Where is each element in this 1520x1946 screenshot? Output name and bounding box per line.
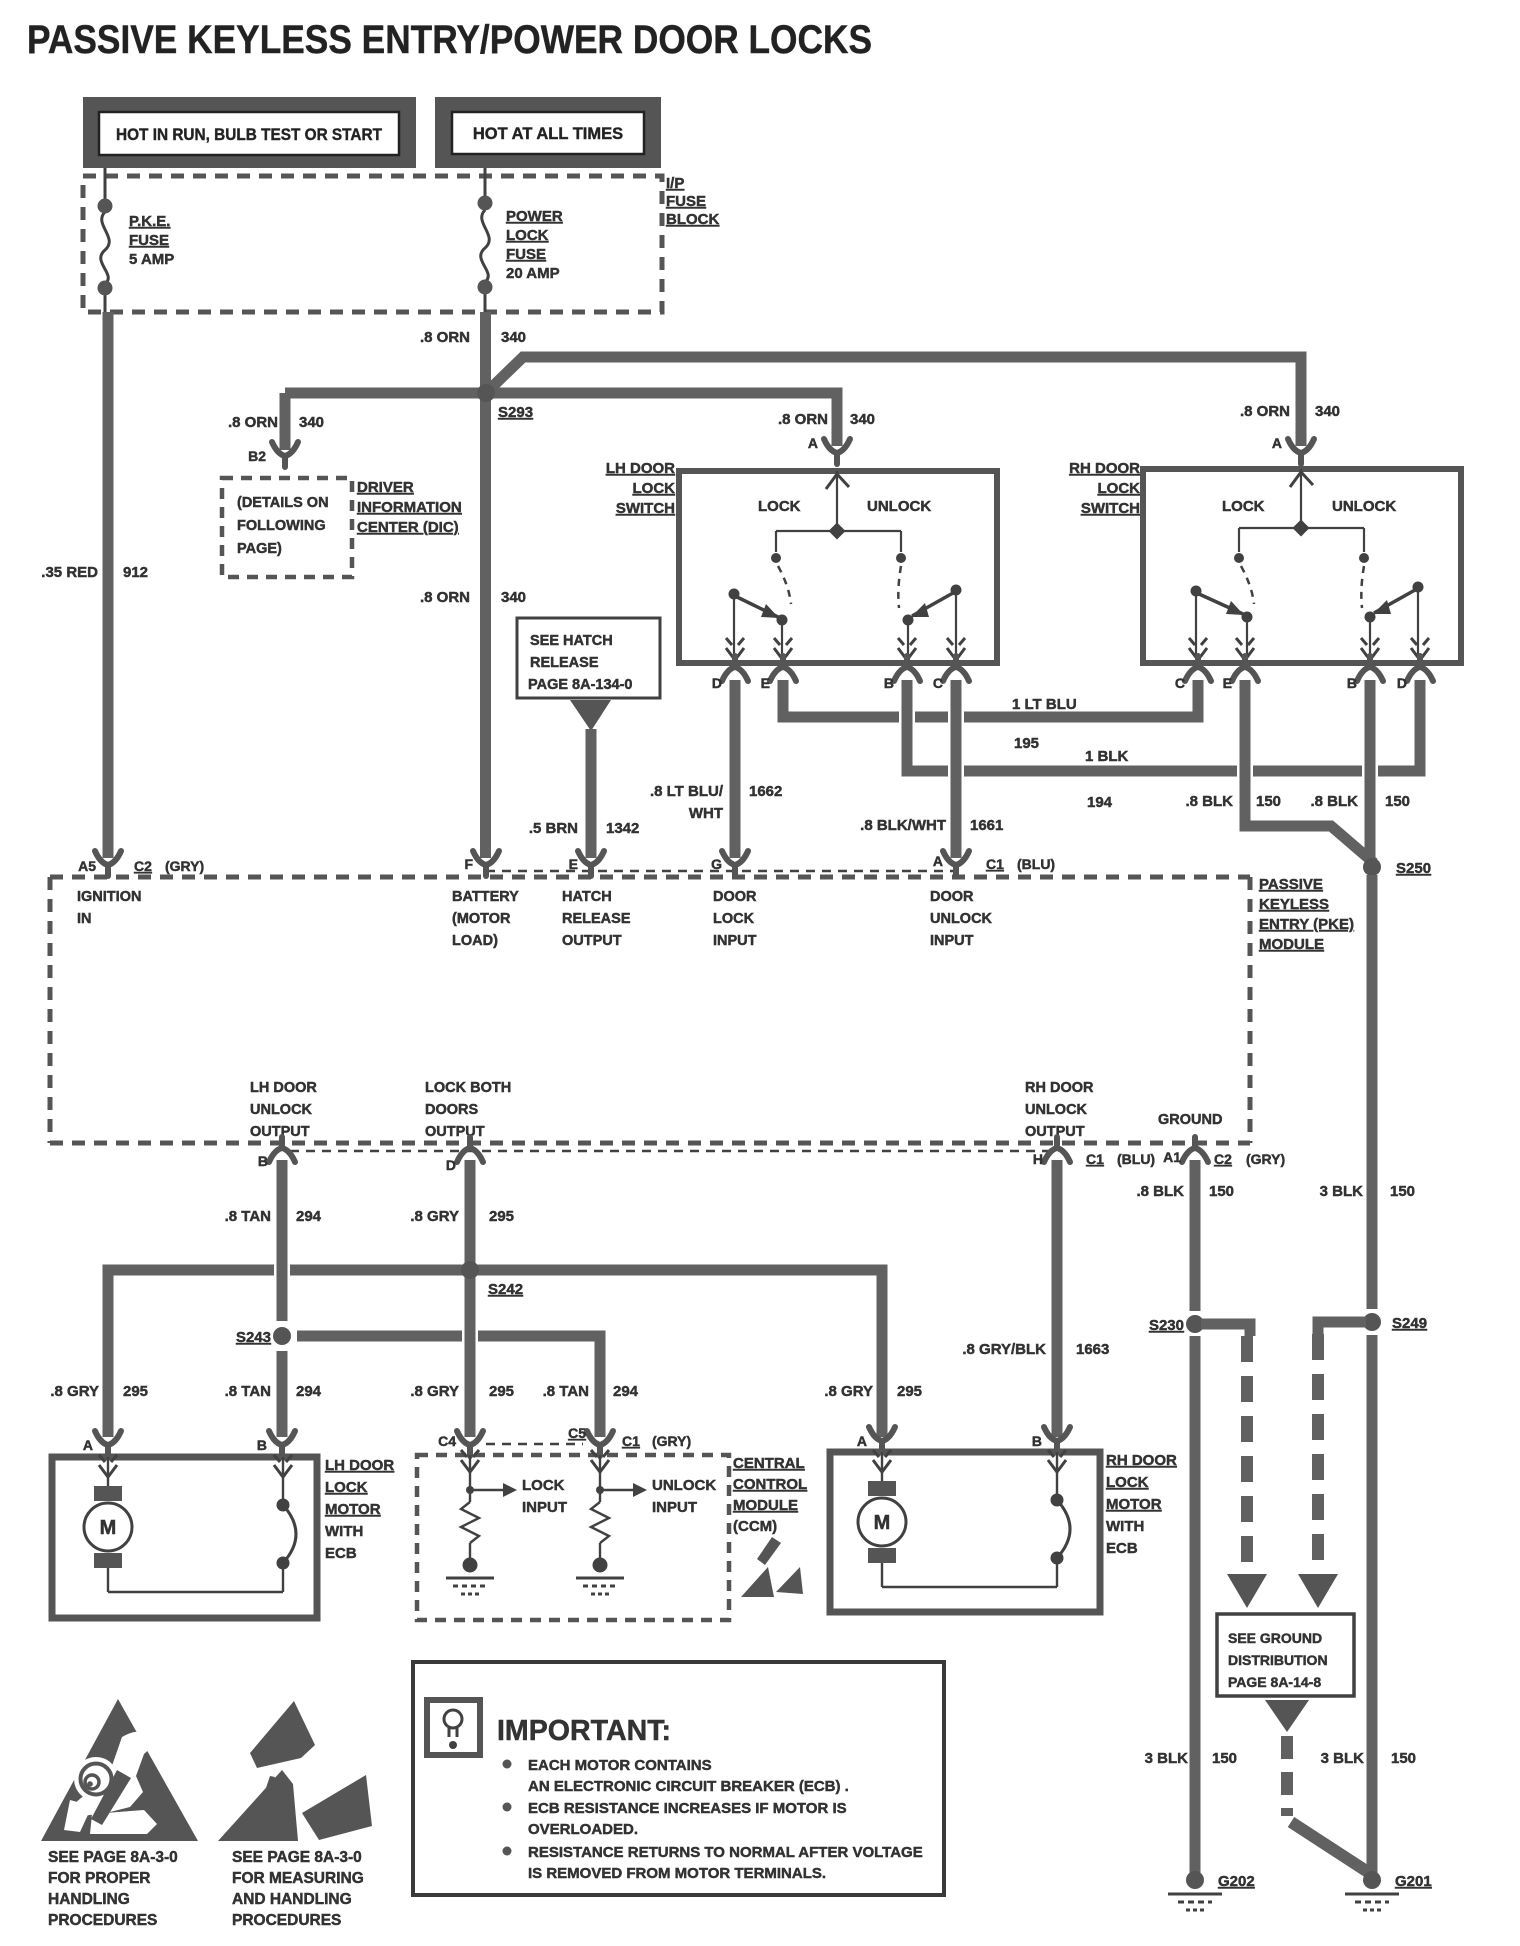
- pin C connector LH switch: [943, 656, 969, 681]
- svg-text:1342: 1342: [606, 820, 639, 837]
- label RH DOOR LOCK MOTOR WITH ECB: [1106, 1452, 1177, 1557]
- note EACH MOTOR CONTAINS ECB: [528, 1757, 849, 1795]
- RH switch unlock pole blade: [1365, 582, 1424, 657]
- svg-text:UNLOCK: UNLOCK: [652, 1477, 716, 1494]
- pin B connector LH motor: [269, 1431, 295, 1456]
- svg-text:1662: 1662: [749, 783, 782, 800]
- svg-text:.8 GRY/BLK: .8 GRY/BLK: [962, 1341, 1046, 1358]
- svg-text:SEE PAGE 8A-3-0: SEE PAGE 8A-3-0: [48, 1849, 178, 1866]
- callout SEE GROUND DISTRIBUTION PAGE 8A-14-8: [1217, 1614, 1354, 1696]
- svg-text:C2: C2: [1214, 1151, 1232, 1167]
- label H / C1 (BLU) PKE bottom: [1033, 1151, 1155, 1167]
- svg-text:(GRY): (GRY): [1246, 1151, 1285, 1167]
- label .8 GRY/BLK 1663: [962, 1341, 1109, 1358]
- svg-text:CENTRAL: CENTRAL: [733, 1455, 805, 1472]
- PKE module dashed box: [50, 877, 1250, 1143]
- svg-text:195: 195: [1014, 735, 1039, 752]
- RH switch lock pole pin arrows: [1189, 638, 1207, 660]
- svg-text:C5: C5: [568, 1425, 586, 1441]
- svg-text:LOCK: LOCK: [506, 227, 549, 244]
- svg-text:IS REMOVED FROM MOTOR TERMINAL: IS REMOVED FROM MOTOR TERMINALS.: [528, 1865, 826, 1882]
- svg-text:MODULE: MODULE: [1259, 936, 1324, 953]
- svg-text:.8 ORN: .8 ORN: [420, 589, 470, 606]
- svg-text:A: A: [933, 853, 943, 869]
- label LH DOOR LOCK MOTOR WITH ECB: [325, 1457, 394, 1562]
- wire S249 branch to ground distribution: [1318, 1322, 1366, 1334]
- junction S293: [477, 384, 495, 402]
- svg-text:LH DOOR: LH DOOR: [325, 1457, 394, 1474]
- svg-text:S243: S243: [236, 1329, 271, 1346]
- pin G connector PKE: [722, 851, 748, 876]
- svg-text:.8 TAN: .8 TAN: [543, 1383, 589, 1400]
- svg-text:.8 GRY: .8 GRY: [50, 1383, 99, 1400]
- svg-text:M: M: [100, 1517, 117, 1539]
- bullet 3: [503, 1847, 512, 1856]
- svg-text:295: 295: [123, 1383, 148, 1400]
- svg-text:DOOR: DOOR: [713, 889, 757, 905]
- svg-text:LOAD): LOAD): [452, 933, 498, 949]
- svg-text:C2: C2: [134, 858, 152, 874]
- IMPORTANT note box: [413, 1662, 944, 1895]
- RH switch lock-side fixed contact: [1234, 553, 1244, 563]
- RH switch common feed line: [1239, 469, 1364, 552]
- pin A connector LH switch: [824, 439, 850, 464]
- LH switch unlock-side fixed contact: [896, 553, 906, 563]
- svg-text:(DETAILS ON: (DETAILS ON: [237, 495, 329, 511]
- svg-text:ECB: ECB: [325, 1545, 357, 1562]
- svg-text:PASSIVE: PASSIVE: [1259, 876, 1323, 893]
- LH switch lock-side dashed travel: [778, 566, 791, 604]
- svg-text:POWER: POWER: [506, 208, 563, 225]
- pin A1 connector PKE bottom: [1182, 1137, 1208, 1162]
- svg-text:340: 340: [850, 411, 875, 428]
- svg-text:.8 BLK/WHT: .8 BLK/WHT: [860, 817, 946, 834]
- svg-text:S250: S250: [1396, 860, 1431, 877]
- wire .5 BRN 1342 hatch release: [586, 729, 597, 858]
- RH switch unlock-side dashed travel: [1361, 566, 1364, 608]
- svg-text:340: 340: [501, 589, 526, 606]
- svg-text:EACH MOTOR CONTAINS: EACH MOTOR CONTAINS: [528, 1757, 712, 1774]
- svg-text:LOCK: LOCK: [758, 498, 801, 515]
- LH door lock switch box: [679, 471, 997, 663]
- svg-text:DRIVER: DRIVER: [357, 479, 414, 496]
- svg-text:.5 BRN: .5 BRN: [529, 820, 578, 837]
- svg-text:B2: B2: [248, 448, 266, 464]
- fuse F2 POWER LOCK FUSE 20 AMP: [481, 176, 490, 312]
- svg-text:.8 GRY: .8 GRY: [824, 1383, 873, 1400]
- svg-text:.8 ORN: .8 ORN: [1240, 403, 1290, 420]
- svg-text:IMPORTANT:: IMPORTANT:: [497, 1715, 671, 1747]
- svg-text:.8 LT BLU/: .8 LT BLU/: [650, 783, 724, 800]
- ESD handling warning triangle 2: [218, 1701, 372, 1841]
- label POWER LOCK FUSE 20 AMP: [506, 208, 563, 282]
- svg-text:HOT AT ALL TIMES: HOT AT ALL TIMES: [473, 125, 623, 143]
- svg-text:LOCK BOTH: LOCK BOTH: [425, 1080, 511, 1096]
- svg-text:.8 TAN: .8 TAN: [225, 1208, 271, 1225]
- pin B connector LH switch: [894, 656, 920, 681]
- label SEE PAGE 8A-3-0 FOR PROPER HANDLING PROCEDURES: [48, 1849, 178, 1929]
- wire .8 BLK 150 RH pin B to S250: [1365, 680, 1376, 860]
- label A1 / C2 (GRY) PKE bottom: [1163, 1149, 1285, 1167]
- svg-text:340: 340: [501, 329, 526, 346]
- svg-text:294: 294: [296, 1383, 322, 1400]
- junction S249: [1363, 1313, 1381, 1331]
- svg-text:PASSIVE KEYLESS ENTRY/POWER DO: PASSIVE KEYLESS ENTRY/POWER DOOR LOCKS: [27, 18, 872, 62]
- wire 3 BLK 150 S249 to G201: [1367, 1335, 1378, 1880]
- bullet 1: [503, 1760, 512, 1769]
- label 1 LT BLU 195: [1012, 696, 1077, 752]
- note RESISTANCE RETURNS TO NORMAL: [528, 1844, 923, 1882]
- junction S243: [273, 1327, 291, 1345]
- ground G201: [1345, 1871, 1399, 1910]
- dashed wire ground distribution to G201: [1287, 1736, 1374, 1876]
- pin B connector PKE bottom: [269, 1137, 295, 1162]
- bullet 2: [503, 1803, 512, 1812]
- svg-text:C1: C1: [1086, 1151, 1104, 1167]
- wire .8 ORN 340 to DIC pin B2: [280, 393, 291, 450]
- svg-text:SEE GROUND: SEE GROUND: [1228, 1630, 1322, 1646]
- wire .8 BLK 150 RH pin E to S250: [1245, 680, 1374, 863]
- svg-text:HANDLING: HANDLING: [48, 1891, 130, 1908]
- svg-text:(GRY): (GRY): [165, 858, 204, 874]
- label CENTRAL CONTROL MODULE (CCM): [733, 1455, 807, 1535]
- svg-text:H: H: [1033, 1151, 1043, 1167]
- label I/P FUSE BLOCK: [666, 175, 719, 228]
- ESD handling warning triangle 1: [41, 1699, 198, 1841]
- svg-text:RH DOOR: RH DOOR: [1025, 1080, 1094, 1096]
- svg-text:(CCM): (CCM): [733, 1518, 777, 1535]
- label LH DOOR UNLOCK OUTPUT: [250, 1080, 317, 1140]
- label .35 RED 912: [41, 564, 148, 581]
- wire S230 branch to ground distribution: [1201, 1324, 1250, 1336]
- svg-text:150: 150: [1385, 793, 1410, 810]
- svg-text:G201: G201: [1395, 1873, 1432, 1890]
- svg-text:1 BLK: 1 BLK: [1085, 748, 1129, 765]
- label 3 BLK 150 G202: [1145, 1750, 1237, 1767]
- off-page arrow S249 branch: [1298, 1574, 1338, 1608]
- svg-text:INPUT: INPUT: [930, 933, 974, 949]
- svg-text:FOR PROPER: FOR PROPER: [48, 1870, 150, 1887]
- svg-text:.8 GRY: .8 GRY: [410, 1383, 459, 1400]
- svg-text:.8 ORN: .8 ORN: [420, 329, 470, 346]
- svg-text:INPUT: INPUT: [522, 1499, 567, 1516]
- ground G202: [1168, 1871, 1222, 1910]
- connector C1 indicator line PKE bottom edge: [290, 1150, 1050, 1153]
- note ECB RESISTANCE INCREASES: [528, 1800, 847, 1838]
- svg-text:S242: S242: [488, 1281, 523, 1298]
- label DRIVER INFORMATION CENTER (DIC): [357, 479, 462, 536]
- svg-text:MODULE: MODULE: [733, 1497, 798, 1514]
- svg-text:SEE PAGE 8A-3-0: SEE PAGE 8A-3-0: [232, 1849, 362, 1866]
- label .8 ORN 340 upper: [420, 329, 526, 346]
- svg-text:150: 150: [1212, 1750, 1237, 1767]
- motor LH DOOR LOCK MOTOR WITH ECB: [52, 1455, 317, 1618]
- label .8 ORN 340 mid: [420, 589, 526, 606]
- DIC dashed box: [222, 478, 352, 577]
- svg-text:WITH: WITH: [325, 1523, 363, 1540]
- svg-text:A: A: [808, 435, 818, 451]
- svg-text:F: F: [464, 856, 473, 872]
- svg-text:RH DOOR: RH DOOR: [1106, 1452, 1177, 1469]
- LH switch common feed line: [776, 471, 901, 552]
- svg-text:M: M: [874, 1512, 891, 1534]
- svg-text:SEE HATCH: SEE HATCH: [530, 633, 613, 649]
- svg-text:AN ELECTRONIC CIRCUIT BREAKER: AN ELECTRONIC CIRCUIT BREAKER (ECB) .: [528, 1778, 849, 1795]
- svg-text:.8 GRY: .8 GRY: [410, 1208, 459, 1225]
- label .8 BLK 150 (B): [1310, 793, 1410, 810]
- svg-text:I/P: I/P: [666, 175, 684, 192]
- IMPORTANT caution icon: [427, 1700, 480, 1755]
- label DOOR LOCK INPUT: [713, 889, 757, 949]
- svg-text:C: C: [933, 675, 943, 691]
- RH door lock switch box: [1143, 469, 1461, 663]
- label .8 LT BLU/WHT 1662: [650, 783, 782, 822]
- pin E connector RH switch: [1232, 656, 1258, 681]
- off-page arrow S230 branch: [1227, 1574, 1267, 1608]
- RH switch unlock-side fixed contact: [1359, 553, 1369, 563]
- svg-text:295: 295: [897, 1383, 922, 1400]
- svg-text:HATCH: HATCH: [562, 889, 612, 905]
- svg-text:G: G: [711, 856, 722, 872]
- svg-text:DOOR: DOOR: [930, 889, 974, 905]
- svg-text:PAGE 8A-134-0: PAGE 8A-134-0: [528, 677, 633, 693]
- svg-text:150: 150: [1256, 793, 1281, 810]
- svg-text:A1: A1: [1163, 1149, 1181, 1165]
- svg-text:MOTOR: MOTOR: [325, 1501, 381, 1518]
- wire .8 GRY 295 PKE D to CCM C4: [465, 1160, 476, 1437]
- svg-text:150: 150: [1391, 1750, 1416, 1767]
- svg-text:LH DOOR: LH DOOR: [606, 460, 675, 477]
- svg-text:A: A: [83, 1437, 93, 1453]
- svg-text:PROCEDURES: PROCEDURES: [48, 1912, 157, 1929]
- label 3 BLK 150 G201: [1321, 1750, 1416, 1767]
- svg-text:S249: S249: [1392, 1315, 1427, 1332]
- label .8 GRY 295 RH motor: [824, 1383, 922, 1400]
- LH switch lock-side fixed contact: [771, 553, 781, 563]
- svg-text:(GRY): (GRY): [652, 1433, 691, 1449]
- svg-text:C: C: [1175, 675, 1185, 691]
- label DOOR UNLOCK INPUT: [930, 889, 993, 949]
- wire stub from HOT AT ALL TIMES feed: [484, 168, 487, 176]
- svg-text:B: B: [1347, 675, 1357, 691]
- svg-text:295: 295: [489, 1383, 514, 1400]
- svg-text:194: 194: [1087, 794, 1113, 811]
- svg-text:LOCK: LOCK: [325, 1479, 368, 1496]
- svg-text:MOTOR: MOTOR: [1106, 1496, 1162, 1513]
- svg-text:C1: C1: [622, 1433, 640, 1449]
- svg-text:B: B: [884, 675, 894, 691]
- svg-text:INPUT: INPUT: [652, 1499, 697, 1516]
- svg-text:UNLOCK: UNLOCK: [1332, 498, 1396, 515]
- svg-text:WHT: WHT: [689, 805, 723, 822]
- label RH DOOR UNLOCK OUTPUT: [1025, 1080, 1094, 1140]
- wire .8 ORN 340 fuse output: [480, 312, 491, 858]
- svg-text:UNLOCK: UNLOCK: [1025, 1102, 1088, 1118]
- label .8 TAN 294 upper: [225, 1208, 322, 1225]
- svg-text:UNLOCK: UNLOCK: [250, 1102, 313, 1118]
- svg-text:340: 340: [299, 414, 324, 431]
- RH switch lock-side dashed travel: [1241, 566, 1254, 604]
- svg-text:PROCEDURES: PROCEDURES: [232, 1912, 341, 1929]
- svg-text:1663: 1663: [1076, 1341, 1109, 1358]
- RH switch lock pole blade: [1191, 586, 1253, 657]
- I/P fuse block dashed box: [83, 176, 662, 312]
- pin B connector RH switch: [1357, 656, 1383, 681]
- svg-text:LOCK: LOCK: [1222, 498, 1265, 515]
- label BATTERY (MOTOR LOAD): [452, 889, 519, 949]
- svg-text:LOCK: LOCK: [522, 1477, 565, 1494]
- svg-text:(BLU): (BLU): [1117, 1151, 1155, 1167]
- svg-text:1 LT BLU: 1 LT BLU: [1012, 696, 1077, 713]
- label A5 / C2 (GRY): [78, 858, 204, 874]
- svg-text:S293: S293: [498, 404, 533, 421]
- label .8 ORN 340 B2: [228, 414, 324, 431]
- svg-text:D: D: [1397, 675, 1407, 691]
- label C1 (GRY) CCM: [622, 1433, 691, 1449]
- svg-text:PAGE): PAGE): [237, 541, 282, 557]
- svg-text:RH DOOR: RH DOOR: [1069, 460, 1140, 477]
- svg-text:C4: C4: [438, 1433, 456, 1449]
- label PASSIVE KEYLESS ENTRY (PKE) MODULE: [1259, 876, 1354, 953]
- svg-text:PAGE 8A-14-8: PAGE 8A-14-8: [1228, 1674, 1321, 1690]
- pin F connector PKE: [473, 851, 499, 876]
- svg-text:295: 295: [489, 1208, 514, 1225]
- wire .8 LT BLU/WHT 1662 pin D to PKE G: [730, 680, 741, 858]
- svg-text:G202: G202: [1218, 1873, 1255, 1890]
- svg-text:HOT IN RUN, BULB TEST OR START: HOT IN RUN, BULB TEST OR START: [116, 126, 382, 144]
- label .8 BLK/WHT 1661: [860, 817, 1003, 834]
- dashed off-page wire from S249: [1312, 1334, 1324, 1574]
- pin E connector PKE: [578, 851, 604, 876]
- svg-text:FUSE: FUSE: [666, 193, 706, 210]
- wire .8 TAN 294 S243 to LH motor B: [277, 1351, 288, 1437]
- svg-text:SWITCH: SWITCH: [1081, 500, 1140, 517]
- svg-text:DISTRIBUTION: DISTRIBUTION: [1228, 1652, 1328, 1668]
- svg-text:S230: S230: [1149, 1317, 1184, 1334]
- wire 1 BLK 194 LH pin B to RH pin D: [902, 680, 1426, 779]
- svg-text:340: 340: [1315, 403, 1340, 420]
- LH switch unlock pole blade: [903, 585, 962, 657]
- wire .8 GRY/BLK 1663 PKE H to RH motor B: [1052, 1160, 1063, 1437]
- wire .35 RED 912 ignition feed: [103, 312, 114, 858]
- feed box HOT AT ALL TIMES: [435, 97, 661, 168]
- junction S242: [461, 1261, 479, 1279]
- junction S250: [1363, 858, 1381, 876]
- label .8 ORN 340 right: [1240, 403, 1340, 420]
- svg-text:FUSE: FUSE: [506, 246, 546, 263]
- label .8 BLK 150 (E): [1185, 793, 1281, 810]
- wire 3 BLK 150 S250 to S249: [1367, 875, 1378, 1309]
- svg-text:IN: IN: [77, 911, 92, 927]
- CCM lock input circuit with resistor and ground: [446, 1450, 567, 1594]
- pin D connector PKE bottom: [457, 1137, 483, 1162]
- dashed connector link C4-C5: [486, 1443, 583, 1446]
- wire .8 TAN 294 PKE B to S243: [277, 1160, 288, 1321]
- feed box HOT IN RUN, BULB TEST OR START: [83, 97, 416, 168]
- label P.K.E. FUSE 5 AMP: [129, 213, 174, 268]
- pin E connector LH switch: [770, 656, 796, 681]
- svg-text:LOCK: LOCK: [713, 911, 755, 927]
- svg-text:FUSE: FUSE: [129, 232, 169, 249]
- svg-text:FOLLOWING: FOLLOWING: [237, 518, 326, 534]
- junction S230: [1186, 1315, 1204, 1333]
- svg-text:RELEASE: RELEASE: [530, 655, 599, 671]
- svg-text:3 BLK: 3 BLK: [1321, 1750, 1365, 1767]
- pin C4 connector CCM: [457, 1431, 483, 1456]
- wire .8 BLK/WHT 1661 LH pin C to PKE A: [951, 680, 962, 858]
- svg-text:BATTERY: BATTERY: [452, 889, 519, 905]
- svg-text:B: B: [1032, 1433, 1042, 1449]
- pin B connector RH motor: [1044, 1427, 1070, 1452]
- svg-text:FOR MEASURING: FOR MEASURING: [232, 1870, 364, 1887]
- pin A5 connector PKE: [95, 851, 121, 876]
- pin B2 connector: [272, 442, 298, 467]
- svg-text:AND HANDLING: AND HANDLING: [232, 1891, 352, 1908]
- pin H connector PKE bottom: [1044, 1137, 1070, 1162]
- svg-text:(BLU): (BLU): [1017, 856, 1055, 872]
- svg-text:D: D: [446, 1157, 456, 1173]
- LH switch unlock-side dashed travel: [898, 566, 901, 608]
- pin C5 connector CCM: [587, 1431, 613, 1456]
- svg-text:LOCK: LOCK: [1106, 1474, 1149, 1491]
- pin D connector LH switch: [722, 656, 748, 681]
- svg-text:A: A: [1272, 435, 1282, 451]
- wire 1 LT BLU 195 LH pin E to RH pin C: [778, 680, 1204, 725]
- fuse F1 P.K.E. FUSE 5 AMP: [101, 176, 110, 312]
- svg-text:ECB: ECB: [1106, 1540, 1138, 1557]
- svg-text:B: B: [258, 1153, 268, 1169]
- LH switch lock pole pin arrows: [726, 638, 744, 660]
- label .8 GRY 295 upper: [410, 1208, 514, 1225]
- svg-text:WITH: WITH: [1106, 1518, 1144, 1535]
- svg-text:INFORMATION: INFORMATION: [357, 499, 462, 516]
- pin A connector RH motor: [869, 1427, 895, 1452]
- svg-text:.8 BLK: .8 BLK: [1185, 793, 1233, 810]
- svg-text:E: E: [569, 856, 578, 872]
- svg-text:CONTROL: CONTROL: [733, 1476, 807, 1493]
- label .8 TAN 294 at C5: [543, 1383, 639, 1400]
- svg-text:.8 TAN: .8 TAN: [225, 1383, 271, 1400]
- CCM unlock input circuit with resistor and ground: [576, 1450, 716, 1594]
- svg-text:294: 294: [613, 1383, 639, 1400]
- svg-text:.35 RED: .35 RED: [41, 564, 98, 581]
- svg-text:.8 ORN: .8 ORN: [228, 414, 278, 431]
- wire S243 branch to CCM C5: [297, 1328, 600, 1437]
- label LOCK BOTH DOORS OUTPUT: [425, 1080, 511, 1140]
- svg-text:OUTPUT: OUTPUT: [562, 933, 622, 949]
- svg-text:.8 BLK: .8 BLK: [1136, 1183, 1184, 1200]
- label SEE PAGE 8A-3-0 FOR MEASURING AND HANDLING PROCEDURES: [232, 1849, 364, 1929]
- svg-text:UNLOCK: UNLOCK: [867, 498, 931, 515]
- svg-text:P.K.E.: P.K.E.: [129, 213, 170, 230]
- label 3 BLK 150 upper right: [1320, 1183, 1415, 1200]
- svg-text:SWITCH: SWITCH: [616, 500, 675, 517]
- ESD symbol CCM: [741, 1537, 803, 1597]
- svg-text:ENTRY (PKE): ENTRY (PKE): [1259, 916, 1354, 933]
- svg-text:DOORS: DOORS: [425, 1102, 479, 1118]
- label A / C1 (BLU) PKE top: [933, 853, 1055, 872]
- svg-text:A5: A5: [78, 858, 96, 874]
- label .8 ORN 340 LH: [778, 411, 875, 428]
- label HATCH RELEASE OUTPUT: [562, 889, 631, 949]
- dashed off-page wire from S230: [1241, 1336, 1253, 1574]
- svg-text:ECB RESISTANCE INCREASES IF MO: ECB RESISTANCE INCREASES IF MOTOR IS: [528, 1800, 847, 1817]
- svg-text:UNLOCK: UNLOCK: [930, 911, 993, 927]
- svg-text:.8 BLK: .8 BLK: [1310, 793, 1358, 810]
- wire S242 branch to LH and RH door lock motors pin A: [108, 1262, 882, 1437]
- motor RH DOOR LOCK MOTOR WITH ECB: [830, 1450, 1100, 1612]
- svg-text:.8 ORN: .8 ORN: [778, 411, 828, 428]
